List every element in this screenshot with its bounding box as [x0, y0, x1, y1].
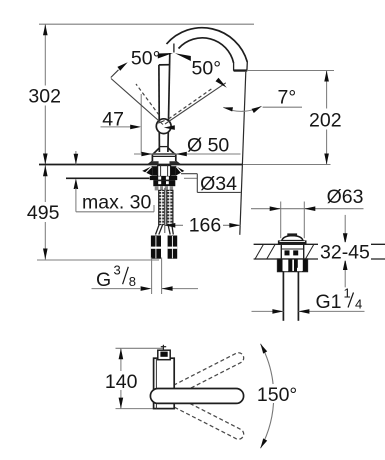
svg-text:50°: 50°: [131, 48, 161, 70]
spout mouth: [233, 63, 235, 71]
svg-text:max. 30: max. 30: [82, 192, 152, 214]
svg-text:Ø63: Ø63: [327, 186, 364, 208]
svg-text:32-45: 32-45: [320, 241, 370, 263]
arc arrowhead left: [117, 62, 127, 70]
water stream line: [240, 72, 246, 235]
handle tilt radial left: [111, 79, 163, 125]
svg-text:1: 1: [344, 286, 351, 301]
label diam34: [181, 173, 197, 175]
body top view: [154, 358, 175, 408]
dim G3/8: [151, 258, 153, 295]
drain body: [280, 244, 282, 259]
dim 166: [164, 224, 183, 226]
drain dome cap: [287, 233, 297, 236]
dim 202: [247, 70, 334, 72]
handle tilt dashed right: [169, 88, 214, 120]
svg-text:140: 140: [105, 371, 138, 393]
dim max30: [75, 151, 77, 165]
drain tailpipe: [282, 272, 284, 321]
supply hose braided left: [159, 190, 165, 224]
hose collar block: [155, 186, 173, 190]
svg-text:495: 495: [27, 202, 60, 224]
drain counter band: [254, 243, 385, 245]
hose bend right: [168, 225, 170, 235]
svg-text:166: 166: [189, 215, 222, 237]
spout inner arc: [179, 38, 234, 63]
handle ball joint: [156, 119, 171, 134]
dim 32-45: [344, 215, 346, 287]
dim 302 line: [44, 24, 46, 164]
svg-text:4: 4: [355, 297, 362, 312]
handle tilt radial right: [165, 83, 226, 124]
swivel dashed capsule lower: [166, 395, 244, 440]
wire top extension line: [39, 23, 254, 25]
deck counter bottom line: [66, 177, 150, 179]
supply hose braided right: [167, 190, 173, 224]
drain locknut: [278, 259, 308, 272]
hose nut right: [168, 236, 178, 259]
arc arrowheads at stick top: [158, 53, 173, 59]
hose nut left: [151, 236, 161, 259]
wire bottom reference line: [37, 259, 159, 261]
dim 495 line: [44, 165, 46, 260]
150 degree arc: [261, 344, 274, 449]
hatch: [255, 245, 263, 259]
mounting nut block: [153, 180, 175, 186]
svg-text:G: G: [96, 269, 111, 291]
svg-text:Ø34: Ø34: [200, 173, 237, 195]
dim 140: [116, 347, 164, 349]
svg-text:7°: 7°: [278, 87, 297, 109]
spout outer arc: [167, 28, 248, 62]
hose bend left: [156, 225, 160, 235]
7 degree arc: [223, 106, 261, 111]
svg-text:202: 202: [309, 109, 342, 131]
spout capsule top view: [150, 389, 243, 404]
arc arrowhead right: [216, 78, 227, 88]
svg-text:302: 302: [28, 86, 61, 108]
faucet base cone: [153, 148, 159, 154]
dim diam50: [134, 153, 241, 155]
svg-text:3: 3: [114, 263, 121, 278]
washer strip: [150, 176, 177, 180]
faucet riser tube: [158, 65, 161, 152]
handle vertical tick: [173, 44, 175, 53]
dim diam63: [280, 202, 282, 239]
svg-text:8: 8: [129, 274, 136, 289]
svg-text:Ø 50: Ø 50: [187, 134, 229, 156]
deck counter top line: [39, 164, 242, 166]
mounting stud centerline: [164, 188, 166, 233]
svg-text:G1: G1: [316, 291, 342, 313]
dim G1 1/4: [252, 310, 284, 312]
mounting clamp below deck: [158, 166, 171, 178]
handle tilt dashed left: [136, 84, 159, 115]
lever top view: [158, 350, 170, 360]
label 7deg: [263, 106, 302, 108]
svg-text:50°: 50°: [192, 58, 222, 80]
swivel dashed capsule upper: [166, 353, 244, 398]
svg-text:150°: 150°: [257, 384, 297, 406]
